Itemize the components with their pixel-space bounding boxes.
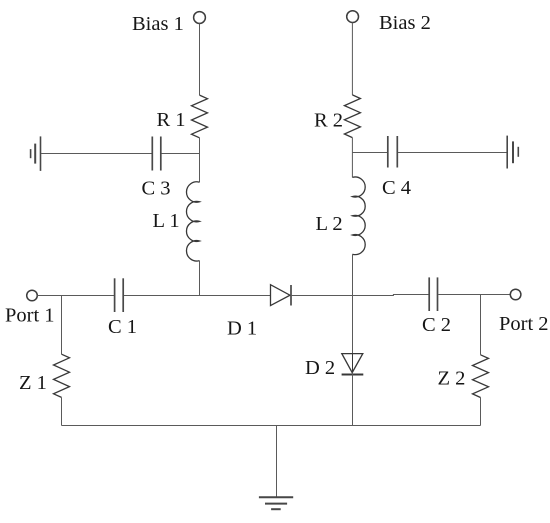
wire node A to L1 (199, 154, 201, 183)
wire C4 to right ground (398, 152, 507, 154)
capacitor C1 (115, 278, 124, 312)
wire node B to C4 (353, 152, 388, 154)
ground right (sideways) (507, 136, 518, 169)
svg-text:C 2: C 2 (422, 314, 451, 336)
svg-text:L 2: L 2 (316, 213, 343, 235)
wire D2 to bottom wire (352, 373, 354, 426)
resistor R2 (344, 95, 360, 138)
svg-text:D 2: D 2 (305, 357, 335, 379)
svg-text:R 2: R 2 (314, 110, 343, 132)
resistor R1 (192, 95, 208, 138)
svg-text:R 1: R 1 (157, 109, 186, 131)
wire main line to Z2 (480, 295, 482, 355)
svg-text:L 1: L 1 (153, 210, 180, 232)
wire main line to D2 (352, 295, 354, 354)
wire C3 to node A (162, 153, 200, 155)
capacitor C4 (388, 136, 398, 168)
inductor L2 (352, 177, 365, 255)
wire Port1 to C1 (37, 295, 114, 297)
diode D2 (342, 354, 364, 375)
wire D1 to C2 (291, 295, 429, 296)
wire L2 to main line (352, 254, 354, 294)
svg-text:D 1: D 1 (227, 318, 257, 340)
terminal Port 1 (27, 290, 38, 301)
inductor L1 (186, 182, 199, 261)
svg-text:Port 2: Port 2 (499, 313, 549, 335)
svg-text:Port 1: Port 1 (5, 305, 55, 327)
wire C1 to D1 (124, 295, 271, 297)
resistor Z1 (54, 354, 70, 397)
svg-text:Z 2: Z 2 (438, 367, 466, 389)
wire Z2 to bottom wire (480, 397, 482, 425)
terminal Bias 2 (347, 11, 359, 23)
terminal Bias 1 (194, 12, 206, 24)
svg-text:C 3: C 3 (142, 178, 171, 200)
wire bottom to ground (276, 426, 278, 498)
wire bias1 stem (199, 23, 201, 95)
wire main line to Z1 (61, 296, 63, 355)
ground left (sideways) (31, 136, 41, 171)
svg-text:Z 1: Z 1 (19, 372, 47, 394)
wire R1 to node A (199, 138, 201, 154)
svg-text:C 4: C 4 (382, 177, 411, 199)
bottom wire (62, 425, 481, 427)
wire R2 to node B (351, 138, 353, 178)
resistor Z2 (473, 355, 489, 398)
terminal Port 2 (510, 289, 521, 300)
svg-text:Bias 2: Bias 2 (379, 12, 431, 34)
capacitor C3 (152, 137, 161, 171)
svg-text:Bias 1: Bias 1 (132, 13, 184, 35)
ground bottom (259, 497, 293, 509)
wire bias2 stem (351, 23, 353, 95)
wire left ground to C3 (41, 153, 152, 155)
wire Z1 to bottom wire (61, 397, 63, 425)
capacitor C2 (429, 277, 437, 311)
wire L1 to main line (199, 261, 201, 296)
wire C2 to Port2 (438, 294, 510, 296)
diode D1 (271, 285, 292, 306)
svg-text:C 1: C 1 (108, 316, 137, 338)
